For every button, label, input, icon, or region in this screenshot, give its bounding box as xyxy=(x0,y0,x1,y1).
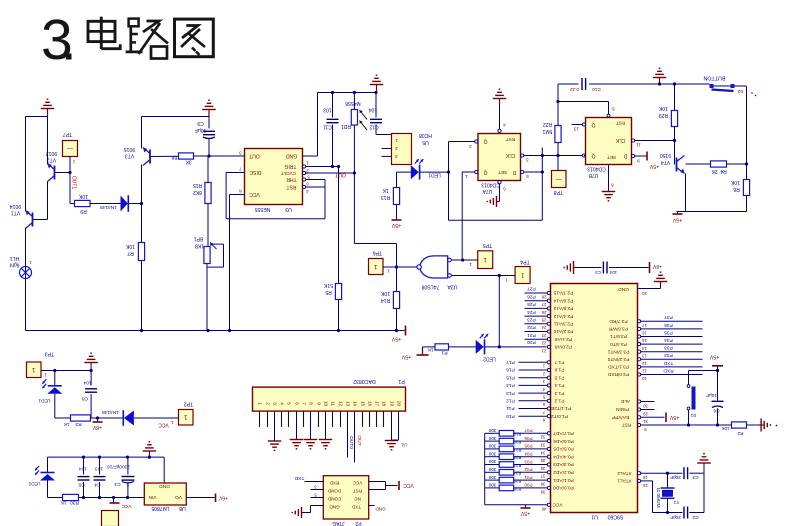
svg-text:P3.0/RXD: P3.0/RXD xyxy=(607,371,629,377)
svg-text:Q: Q xyxy=(591,122,595,128)
svg-text:10K: 10K xyxy=(380,290,390,296)
svg-text:3: 3 xyxy=(395,153,398,159)
svg-text:+: + xyxy=(127,483,130,489)
svg-text:C6: C6 xyxy=(713,408,719,414)
svg-text:4: 4 xyxy=(306,189,309,194)
svg-text:BP1: BP1 xyxy=(194,236,204,242)
svg-text:10: 10 xyxy=(642,376,647,381)
svg-text:104: 104 xyxy=(79,466,87,472)
svg-text:VCC: VCC xyxy=(121,504,131,509)
svg-text:11: 11 xyxy=(636,142,641,147)
svg-text:15: 15 xyxy=(360,401,365,407)
svg-text:1K8: 1K8 xyxy=(195,243,204,249)
svg-text:103: 103 xyxy=(323,107,332,113)
svg-text:P07: P07 xyxy=(524,428,533,433)
svg-text:S: S xyxy=(612,106,615,111)
svg-text:P24: P24 xyxy=(527,309,536,315)
svg-text:JTAG: JTAG xyxy=(332,520,345,526)
svg-text:RST: RST xyxy=(353,488,362,493)
svg-text:SET: SET xyxy=(607,154,616,160)
svg-text:38: 38 xyxy=(540,481,545,486)
svg-text:P04: P04 xyxy=(524,451,533,456)
svg-text:P2.1/A9: P2.1/A9 xyxy=(555,336,572,342)
svg-text:LM7805: LM7805 xyxy=(151,505,169,511)
svg-text:CLK: CLK xyxy=(615,137,625,143)
svg-text:103: 103 xyxy=(95,466,103,472)
svg-text:12: 12 xyxy=(642,361,647,366)
svg-text:300: 300 xyxy=(488,483,496,488)
svg-text:10: 10 xyxy=(323,401,328,407)
svg-text:P1.7: P1.7 xyxy=(554,359,564,365)
svg-text:GND: GND xyxy=(618,286,629,292)
svg-text:2: 2 xyxy=(265,402,270,405)
svg-text:1N4148: 1N4148 xyxy=(102,409,119,415)
svg-text:34: 34 xyxy=(540,450,545,455)
svg-text:12: 12 xyxy=(338,401,343,407)
svg-text:THR: THR xyxy=(286,176,297,182)
svg-text:1: 1 xyxy=(395,137,398,143)
svg-text:P13: P13 xyxy=(506,390,515,396)
svg-text:GND: GND xyxy=(375,506,386,511)
svg-text:+5V: +5V xyxy=(391,336,401,342)
svg-text:R19: R19 xyxy=(513,432,521,437)
svg-text:Q: Q xyxy=(483,169,487,175)
svg-text:10K: 10K xyxy=(722,426,730,431)
svg-text:10K: 10K xyxy=(730,179,740,185)
svg-text:P0.1/AD1: P0.1/AD1 xyxy=(553,477,574,483)
svg-text:6: 6 xyxy=(294,402,299,405)
svg-text:P0.3/AD3: P0.3/AD3 xyxy=(553,461,574,467)
svg-text:21: 21 xyxy=(541,348,546,353)
svg-text:P11: P11 xyxy=(506,405,515,411)
svg-text:P23: P23 xyxy=(527,317,536,323)
svg-text:RST: RST xyxy=(616,120,626,126)
svg-text:P15: P15 xyxy=(506,374,515,380)
svg-text:R5: R5 xyxy=(325,289,332,295)
svg-text:R13: R13 xyxy=(381,194,390,200)
svg-text:C8: C8 xyxy=(82,396,88,402)
svg-text:R22: R22 xyxy=(513,455,521,460)
svg-text:22: 22 xyxy=(541,341,546,346)
svg-text:U2: U2 xyxy=(401,442,407,447)
svg-text:OUT1: OUT1 xyxy=(71,176,77,190)
svg-text:ALE: ALE xyxy=(621,398,630,404)
svg-text:P32: P32 xyxy=(664,352,673,358)
svg-text:C5: C5 xyxy=(78,482,84,488)
svg-text:P0.4/AD4: P0.4/AD4 xyxy=(553,453,574,459)
svg-text:CVOLT: CVOLT xyxy=(281,171,296,176)
svg-text:OUT: OUT xyxy=(334,172,346,178)
svg-text:27: 27 xyxy=(541,302,546,307)
svg-text:TP6: TP6 xyxy=(373,250,383,256)
svg-text:20: 20 xyxy=(396,401,401,407)
svg-text:+5V: +5V xyxy=(669,414,679,420)
svg-text:3: 3 xyxy=(239,150,242,155)
svg-text:R22: R22 xyxy=(543,121,552,127)
svg-text:Q: Q xyxy=(591,153,595,159)
svg-text:P0.5/AD5: P0.5/AD5 xyxy=(553,446,574,452)
svg-text:17: 17 xyxy=(374,401,379,407)
svg-text:VCC: VCC xyxy=(158,422,169,428)
svg-text:9012: 9012 xyxy=(46,150,58,156)
svg-text:RST: RST xyxy=(622,422,632,428)
svg-text:P01: P01 xyxy=(524,475,533,480)
svg-text:R1: R1 xyxy=(441,350,447,356)
svg-text:7: 7 xyxy=(301,402,306,405)
svg-text:11.0592M: 11.0592M xyxy=(656,487,661,507)
svg-text:40: 40 xyxy=(541,506,546,511)
svg-text:1K: 1K xyxy=(382,187,389,193)
svg-text:13: 13 xyxy=(642,353,647,358)
svg-text:CLK: CLK xyxy=(505,152,515,158)
svg-text:BUTTON: BUTTON xyxy=(703,75,725,81)
svg-text:+5V: +5V xyxy=(649,163,659,169)
svg-text:C11: C11 xyxy=(323,124,332,130)
svg-text:6: 6 xyxy=(503,186,506,191)
svg-text:30pF: 30pF xyxy=(670,514,681,520)
svg-text:9: 9 xyxy=(316,402,321,405)
svg-text:C2: C2 xyxy=(692,514,698,520)
svg-text:3: 3 xyxy=(41,8,73,72)
svg-text:3: 3 xyxy=(272,402,277,405)
svg-text:1K: 1K xyxy=(63,421,70,427)
svg-text:RST: RST xyxy=(287,184,297,190)
svg-text:light: light xyxy=(9,262,19,268)
svg-text:31: 31 xyxy=(643,419,648,424)
svg-text:RXD: RXD xyxy=(663,367,674,373)
svg-text:TP5: TP5 xyxy=(483,242,493,248)
svg-text:P34: P34 xyxy=(664,337,673,343)
svg-text:TP4: TP4 xyxy=(520,259,530,265)
svg-text:10K: 10K xyxy=(78,193,88,199)
svg-text:P00: P00 xyxy=(524,483,533,488)
svg-text:11: 11 xyxy=(330,401,335,406)
svg-text:P27: P27 xyxy=(527,286,536,292)
svg-text:104: 104 xyxy=(369,107,378,113)
svg-text:18: 18 xyxy=(381,401,386,407)
svg-text:7: 7 xyxy=(239,166,242,171)
svg-text:+6V: +6V xyxy=(652,263,662,269)
svg-text:P16: P16 xyxy=(506,367,515,373)
svg-text:33: 33 xyxy=(540,442,545,447)
svg-text:30pF: 30pF xyxy=(670,474,681,480)
svg-text:RST: RST xyxy=(506,136,516,142)
svg-text:5: 5 xyxy=(286,402,291,405)
svg-text:TP8: TP8 xyxy=(554,189,564,195)
svg-text:M4558: M4558 xyxy=(345,100,361,106)
svg-text:+5V: +5V xyxy=(709,354,719,360)
svg-text:P1.5: P1.5 xyxy=(554,374,564,380)
svg-text:—: — xyxy=(556,175,562,181)
svg-text:P2.0/A8: P2.0/A8 xyxy=(555,344,572,350)
svg-text:19: 19 xyxy=(643,483,648,488)
svg-text:2: 2 xyxy=(469,144,472,149)
svg-text:P12: P12 xyxy=(506,398,515,404)
svg-text:1: 1 xyxy=(257,402,262,405)
svg-text:Q: Q xyxy=(483,138,487,144)
svg-text:4: 4 xyxy=(279,402,284,405)
svg-text:+6V: +6V xyxy=(92,424,102,430)
svg-text:P0.0/AD0: P0.0/AD0 xyxy=(553,485,574,491)
svg-text:U1: U1 xyxy=(591,514,598,520)
svg-text:P2.4/A12: P2.4/A12 xyxy=(553,313,573,319)
svg-text:5: 5 xyxy=(307,174,310,179)
svg-text:5: 5 xyxy=(526,174,529,179)
svg-text:6: 6 xyxy=(306,181,309,186)
svg-text:4: 4 xyxy=(503,122,506,127)
svg-text:32: 32 xyxy=(540,435,545,440)
svg-text:VT4: VT4 xyxy=(661,159,670,165)
svg-text:+5V: +5V xyxy=(672,217,682,223)
svg-text:LED2: LED2 xyxy=(28,481,40,487)
svg-text:3: 3 xyxy=(526,157,529,162)
svg-text:P1.6: P1.6 xyxy=(554,367,564,373)
svg-text:+5V: +5V xyxy=(520,510,530,516)
svg-text:P0.7/AD7: P0.7/AD7 xyxy=(553,430,574,436)
svg-text:300: 300 xyxy=(488,475,496,480)
svg-text:P1.0/T2: P1.0/T2 xyxy=(551,413,568,419)
svg-text:9150: 9150 xyxy=(660,152,671,158)
svg-text:P0.6/AD6: P0.6/AD6 xyxy=(553,438,574,444)
svg-text:LED1: LED1 xyxy=(38,398,50,404)
svg-text:300: 300 xyxy=(488,459,496,464)
svg-text:R14: R14 xyxy=(381,297,390,303)
svg-text:14: 14 xyxy=(352,401,357,407)
svg-text:R24: R24 xyxy=(513,471,521,476)
svg-text:VCC: VCC xyxy=(552,502,563,508)
svg-text:P22: P22 xyxy=(527,324,536,330)
svg-text:300: 300 xyxy=(488,467,496,472)
svg-text:S9C60: S9C60 xyxy=(607,514,623,520)
svg-text:U8: U8 xyxy=(179,505,186,511)
svg-text:TXD: TXD xyxy=(351,504,361,509)
svg-text:CD4013: CD4013 xyxy=(481,182,500,188)
svg-text:15: 15 xyxy=(642,338,647,343)
svg-text:P3.4/T0: P3.4/T0 xyxy=(610,341,627,347)
svg-text:U3: U3 xyxy=(285,206,292,212)
svg-text:R20: R20 xyxy=(513,439,521,444)
svg-text:+5V: +5V xyxy=(391,222,401,228)
svg-text:P21: P21 xyxy=(527,332,536,338)
svg-text:13: 13 xyxy=(574,126,580,131)
svg-text:+5V: +5V xyxy=(401,354,411,360)
svg-text:P2: P2 xyxy=(355,520,361,526)
svg-text:VCC: VCC xyxy=(352,480,362,485)
svg-text:8K2: 8K2 xyxy=(193,189,202,195)
svg-text:23: 23 xyxy=(541,333,546,338)
svg-text:16: 16 xyxy=(642,331,647,336)
svg-text:1K: 1K xyxy=(427,347,434,353)
svg-text:D: D xyxy=(623,153,627,159)
svg-text:R29: R29 xyxy=(659,112,668,118)
svg-text:HC08: HC08 xyxy=(419,132,432,138)
svg-text:C4: C4 xyxy=(595,270,601,275)
svg-text:P20: P20 xyxy=(527,339,536,345)
svg-text:28: 28 xyxy=(541,294,546,299)
svg-text:P36: P36 xyxy=(664,322,673,328)
svg-text:P1: P1 xyxy=(398,378,404,384)
svg-text:37: 37 xyxy=(540,474,545,479)
svg-text:XTAL1: XTAL1 xyxy=(617,478,632,484)
svg-text:P2.7/A15: P2.7/A15 xyxy=(553,290,573,296)
svg-text:19: 19 xyxy=(389,401,394,407)
svg-text:NE555: NE555 xyxy=(254,206,270,212)
svg-text:36: 36 xyxy=(540,466,545,471)
svg-text:25: 25 xyxy=(541,317,546,322)
svg-text:P3.1/TXD: P3.1/TXD xyxy=(608,364,629,370)
svg-text:OUT: OUT xyxy=(249,153,260,159)
svg-text:DCMD: DCMD xyxy=(328,488,341,493)
svg-text:8: 8 xyxy=(308,402,313,405)
svg-text:R2: R2 xyxy=(737,431,743,436)
svg-text:GND: GND xyxy=(329,504,340,509)
svg-text:NC: NC xyxy=(354,496,361,501)
svg-text:VT1: VT1 xyxy=(11,210,21,216)
svg-text:10K: 10K xyxy=(658,105,668,111)
svg-text:P3.7/RD: P3.7/RD xyxy=(609,318,628,324)
svg-text:—: — xyxy=(67,145,73,151)
svg-text:13: 13 xyxy=(345,401,350,407)
svg-text:104: 104 xyxy=(609,270,617,275)
svg-text:U7B: U7B xyxy=(588,172,598,178)
svg-text:P0.2/AD2: P0.2/AD2 xyxy=(553,469,574,475)
svg-text:R3: R3 xyxy=(75,421,81,427)
svg-text:R6: R6 xyxy=(733,186,740,192)
svg-text:P03: P03 xyxy=(524,459,533,464)
svg-text:P06: P06 xyxy=(524,436,533,441)
svg-text:P05: P05 xyxy=(524,444,533,449)
svg-text:16: 16 xyxy=(367,401,372,407)
svg-text:P25: P25 xyxy=(527,301,536,307)
svg-text:P1.2: P1.2 xyxy=(554,398,564,404)
svg-text:300: 300 xyxy=(488,444,496,449)
svg-text:C9: C9 xyxy=(197,120,204,126)
svg-text:1K: 1K xyxy=(60,500,67,506)
svg-text:EA/VPP: EA/VPP xyxy=(612,414,629,420)
svg-text:GND: GND xyxy=(159,483,170,489)
svg-text:300: 300 xyxy=(488,436,496,441)
svg-text:R4: R4 xyxy=(720,168,727,174)
svg-text:8: 8 xyxy=(239,188,242,193)
svg-text:14: 14 xyxy=(642,346,647,351)
svg-text:P02: P02 xyxy=(524,467,533,472)
svg-text:PSEN: PSEN xyxy=(615,406,629,412)
svg-text:R9: R9 xyxy=(80,208,87,214)
svg-text:3K: 3K xyxy=(185,159,192,165)
svg-text:COMD: COMD xyxy=(328,496,341,501)
svg-text:74LS08: 74LS08 xyxy=(421,284,439,290)
svg-text:U7A: U7A xyxy=(482,188,492,194)
svg-text:9: 9 xyxy=(637,158,640,163)
svg-text:P1.3: P1.3 xyxy=(554,390,564,396)
svg-text:R7: R7 xyxy=(127,250,134,256)
svg-text:2200µF/16: 2200µF/16 xyxy=(107,463,130,469)
svg-text:35: 35 xyxy=(540,458,545,463)
svg-text:P1.4: P1.4 xyxy=(554,382,564,388)
svg-text:P26: P26 xyxy=(527,293,536,299)
svg-text:5M1: 5M1 xyxy=(542,128,552,134)
svg-text:TXD: TXD xyxy=(663,360,673,366)
svg-text:U2A: U2A xyxy=(447,284,458,290)
svg-text:VIN: VIN xyxy=(148,494,157,500)
svg-text:LED2: LED2 xyxy=(483,356,496,362)
svg-text:TP7: TP7 xyxy=(63,131,73,137)
svg-text:P35: P35 xyxy=(664,329,673,335)
svg-text:R21: R21 xyxy=(513,447,521,452)
svg-text:U5: U5 xyxy=(422,139,429,145)
svg-text:1: 1 xyxy=(465,174,468,179)
svg-text:C3: C3 xyxy=(692,474,698,480)
svg-text:51K: 51K xyxy=(323,282,333,288)
svg-text:10K: 10K xyxy=(125,243,135,249)
svg-text:1: 1 xyxy=(387,268,390,273)
svg-text:30: 30 xyxy=(643,403,648,408)
svg-text:18: 18 xyxy=(643,475,648,480)
svg-text:1: 1 xyxy=(306,160,309,165)
svg-text:2K: 2K xyxy=(711,168,718,174)
svg-text:0.22: 0.22 xyxy=(570,87,579,92)
svg-text:+6V: +6V xyxy=(218,495,228,501)
svg-text:R30: R30 xyxy=(70,500,79,506)
svg-text:9014: 9014 xyxy=(10,203,22,209)
svg-text:2: 2 xyxy=(395,145,398,151)
svg-text:TRIG: TRIG xyxy=(284,163,296,169)
svg-text:8: 8 xyxy=(611,182,614,187)
svg-text:300: 300 xyxy=(488,451,496,456)
svg-text:P2.3/A11: P2.3/A11 xyxy=(553,321,573,327)
svg-text:P3.2/INT0: P3.2/INT0 xyxy=(607,356,629,362)
svg-text:P2.2/A10: P2.2/A10 xyxy=(553,328,573,334)
svg-text:TP2: TP2 xyxy=(184,401,194,407)
svg-text:TXD: TXD xyxy=(294,475,304,481)
svg-text:R8: R8 xyxy=(171,155,177,160)
svg-text:VCC: VCC xyxy=(403,482,414,488)
svg-text:TP3: TP3 xyxy=(45,351,55,357)
svg-text:P33: P33 xyxy=(664,345,673,351)
svg-text:104: 104 xyxy=(83,380,91,386)
svg-text:XTAL2: XTAL2 xyxy=(617,470,632,476)
svg-text:Y1: Y1 xyxy=(673,499,679,505)
svg-text:10µF: 10µF xyxy=(195,127,207,133)
svg-text:DAC0832: DAC0832 xyxy=(353,378,376,384)
svg-text:9015: 9015 xyxy=(124,146,136,152)
svg-text:S2: S2 xyxy=(737,88,743,94)
svg-text:10µF: 10µF xyxy=(706,392,717,398)
svg-text:R15: R15 xyxy=(193,182,202,188)
svg-text:OUT: OUT xyxy=(356,435,362,445)
svg-text:P37: P37 xyxy=(664,314,673,320)
svg-text:D: D xyxy=(512,169,516,175)
svg-text:C4: C4 xyxy=(94,482,100,488)
svg-text:RXD: RXD xyxy=(329,480,339,485)
svg-text:VT2: VT2 xyxy=(47,157,57,163)
svg-text:HL1: HL1 xyxy=(10,255,20,261)
svg-text:26: 26 xyxy=(541,310,546,315)
svg-text:P3.6/WR: P3.6/WR xyxy=(608,326,628,332)
svg-text:C10: C10 xyxy=(592,87,601,92)
svg-text:S1: S1 xyxy=(690,412,696,418)
svg-text:R26: R26 xyxy=(513,486,521,491)
svg-text:300: 300 xyxy=(488,428,496,433)
svg-text:11: 11 xyxy=(642,369,647,374)
svg-text:39: 39 xyxy=(540,489,545,494)
svg-text:P2.6/A14: P2.6/A14 xyxy=(553,297,573,303)
svg-text:RD1: RD1 xyxy=(341,123,351,129)
svg-text:P14: P14 xyxy=(506,382,515,388)
svg-text:VO: VO xyxy=(175,494,182,500)
svg-text:24: 24 xyxy=(541,325,546,330)
svg-text:29: 29 xyxy=(643,411,648,416)
